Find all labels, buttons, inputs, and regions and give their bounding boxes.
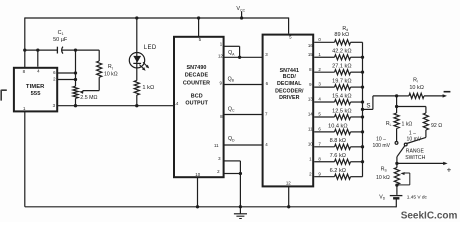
svg-text:LED: LED <box>144 45 157 51</box>
svg-text:10: 10 <box>195 172 200 177</box>
svg-text:14: 14 <box>308 112 313 117</box>
svg-text:SeekIC.com: SeekIC.com <box>401 210 458 221</box>
svg-text:S: S <box>366 102 370 109</box>
svg-text:10 kΩ: 10 kΩ <box>376 175 390 181</box>
svg-text:89 kΩ: 89 kΩ <box>334 32 349 38</box>
svg-text:10 mV: 10 mV <box>407 137 422 143</box>
svg-text:11: 11 <box>214 143 219 148</box>
svg-text:42.2 kΩ: 42.2 kΩ <box>332 49 351 55</box>
svg-text:27.1 kΩ: 27.1 kΩ <box>332 64 351 70</box>
svg-text:15.4 kΩ: 15.4 kΩ <box>332 93 351 99</box>
svg-text:DECODER/: DECODER/ <box>275 88 304 94</box>
svg-text:TIMER: TIMER <box>26 84 45 90</box>
svg-text:BCD: BCD <box>191 93 203 99</box>
svg-text:BCD/: BCD/ <box>283 74 297 80</box>
svg-text:19.7 kΩ: 19.7 kΩ <box>332 78 351 84</box>
svg-text:92 Ω: 92 Ω <box>431 123 442 129</box>
svg-text:12: 12 <box>286 180 291 185</box>
svg-text:COUNTER: COUNTER <box>183 81 210 87</box>
svg-text:100 mV: 100 mV <box>373 143 391 149</box>
svg-text:10 –: 10 – <box>376 136 386 142</box>
svg-text:12.5 kΩ: 12.5 kΩ <box>332 108 351 114</box>
svg-text:1 kΩ: 1 kΩ <box>402 121 413 127</box>
svg-text:OUTPUT: OUTPUT <box>185 101 208 107</box>
svg-text:DRIVER: DRIVER <box>279 95 299 101</box>
svg-text:10.4 kΩ: 10.4 kΩ <box>328 123 347 129</box>
svg-text:13: 13 <box>308 97 313 102</box>
svg-text:10: 10 <box>308 142 313 147</box>
svg-text:DECIMAL: DECIMAL <box>277 81 302 87</box>
svg-text:2.5 MΩ: 2.5 MΩ <box>80 95 97 101</box>
svg-text:1 kΩ: 1 kΩ <box>142 85 154 91</box>
svg-text:15: 15 <box>308 52 313 57</box>
svg-text:14: 14 <box>173 101 178 106</box>
svg-text:+: + <box>447 166 452 175</box>
svg-text:6.2 kΩ: 6.2 kΩ <box>330 168 346 174</box>
svg-text:SN7490: SN7490 <box>186 65 206 71</box>
svg-text:DECADE: DECADE <box>185 72 209 78</box>
svg-text:16: 16 <box>308 43 313 48</box>
svg-text:555: 555 <box>31 91 42 97</box>
svg-text:1.45 V dc: 1.45 V dc <box>407 195 428 201</box>
svg-text:12: 12 <box>218 54 223 59</box>
svg-text:11: 11 <box>308 127 313 132</box>
svg-text:8.8 kΩ: 8.8 kΩ <box>330 138 346 144</box>
svg-text:RANGE: RANGE <box>406 149 425 155</box>
svg-text:50 µF: 50 µF <box>53 37 68 43</box>
svg-text:10 kΩ: 10 kΩ <box>409 85 424 91</box>
svg-text:7.6 kΩ: 7.6 kΩ <box>330 153 346 159</box>
svg-text:SWITCH: SWITCH <box>405 155 425 161</box>
svg-text:10 kΩ: 10 kΩ <box>104 71 118 77</box>
